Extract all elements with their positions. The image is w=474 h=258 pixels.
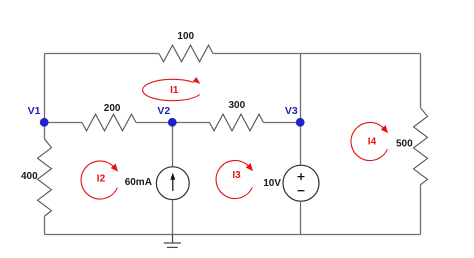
svg-text:I1: I1 [170, 85, 179, 96]
wire V3 down to voltage source [300, 123, 302, 166]
svg-text:400: 400 [21, 171, 38, 182]
mesh current I4 [351, 122, 388, 160]
svg-text:200: 200 [104, 103, 121, 114]
node V2 [168, 118, 177, 127]
svg-text:I3: I3 [232, 170, 241, 181]
svg-text:V3: V3 [285, 105, 298, 117]
mesh current I2 [81, 161, 118, 199]
wire top-left segment [45, 53, 160, 55]
label V2 [157, 105, 170, 117]
wire current source to bottom [172, 200, 174, 235]
wire R200 to R300 [136, 122, 210, 124]
svg-text:100: 100 [177, 31, 194, 42]
svg-text:V1: V1 [28, 105, 41, 117]
wire right vertical lower [420, 184, 422, 234]
svg-text:500: 500 [396, 139, 413, 150]
svg-text:I2: I2 [97, 173, 106, 184]
svg-text:300: 300 [229, 100, 246, 111]
wire right vertical upper [420, 54, 422, 108]
mesh current I1 [143, 77, 201, 101]
mesh current I3 [216, 160, 253, 198]
wire bottom [45, 234, 421, 236]
label 200 [104, 103, 121, 114]
resistor 500 [414, 108, 428, 185]
resistor 300 [210, 114, 264, 131]
wire R300 to V3 [264, 122, 301, 124]
current source 60mA [156, 167, 189, 200]
wire voltage source to bottom [300, 201, 302, 234]
label 100 [177, 31, 194, 42]
node V3 [296, 118, 305, 127]
wire top-right segment [213, 53, 421, 55]
wire V3 riser to top [300, 54, 302, 123]
svg-text:60mA: 60mA [125, 177, 152, 188]
resistor 200 [82, 114, 136, 131]
svg-text:V2: V2 [157, 105, 170, 117]
label 300 [229, 100, 246, 111]
wire V2 down to current source [172, 123, 174, 167]
label 500 [396, 139, 413, 150]
resistor 100 [159, 45, 213, 62]
ground [164, 235, 181, 248]
label 10V [263, 178, 281, 189]
voltage source 10V [283, 165, 319, 201]
wire V1 to R200 [45, 122, 83, 124]
svg-text:I4: I4 [368, 136, 377, 147]
label 400 [21, 171, 38, 182]
wire left vertical upper [44, 54, 46, 140]
wire left vertical lower [44, 216, 46, 235]
label V3 [285, 105, 298, 117]
svg-text:10V: 10V [263, 178, 281, 189]
label 60mA [125, 177, 152, 188]
label V1 [28, 105, 41, 117]
resistor 400 [38, 139, 52, 216]
node V1 [40, 118, 49, 127]
